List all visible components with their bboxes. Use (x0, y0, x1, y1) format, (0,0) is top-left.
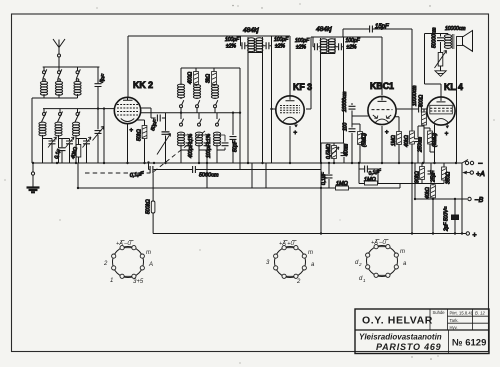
band switch row1 S1a (43, 67, 47, 79)
svg-text:Piirt. 15.8.41: Piirt. 15.8.41 (450, 311, 474, 316)
capacitor 100pF T2 right (335, 37, 344, 47)
capacitor 15pF (370, 25, 373, 33)
osc coil row1 b (193, 85, 200, 99)
svg-text:+A –U: +A –U (116, 241, 131, 247)
svg-text:B. 12: B. 12 (475, 311, 485, 316)
terminal +A (464, 171, 471, 174)
svg-text:40cm: 40cm (344, 144, 350, 156)
svg-text:90kΩ: 90kΩ (415, 171, 421, 183)
svg-text:350Ω: 350Ω (446, 172, 452, 184)
wire KF3 anode to IFT2 (306, 37, 382, 109)
svg-text:2: 2 (358, 262, 362, 267)
capacitor 50pF padder right (232, 113, 234, 163)
svg-text:+A –U: +A –U (371, 240, 386, 246)
resistor 600ohm KL4 (424, 109, 427, 163)
output transformer (444, 34, 456, 50)
trimmer capacitor C2 (59, 137, 75, 163)
svg-text:15pF: 15pF (375, 24, 389, 30)
wire 500k resistor drop (152, 170, 154, 234)
svg-text:PARISTO 469: PARISTO 469 (376, 342, 442, 352)
wire speaker return (456, 46, 458, 164)
tube socket diagram 3 (KL4) (355, 239, 407, 283)
capacitor 10000cm KBC1 left (352, 103, 368, 122)
resistor 40k bias lower (431, 185, 436, 198)
wire IFT1 drops (248, 46, 272, 163)
title block outer box (355, 309, 489, 354)
capacitor 10000cm KL4 grid (419, 105, 422, 113)
svg-text:A: A (148, 262, 153, 268)
oscillator top bus (181, 68, 240, 170)
svg-text:m: m (400, 249, 405, 255)
tube socket diagram 2 (KF3) (266, 240, 315, 285)
svg-text:±2%: ±2% (296, 45, 307, 51)
osc coil row1 a (177, 68, 184, 99)
resistor 90k bias (420, 167, 425, 180)
svg-text:10000cm: 10000cm (342, 91, 348, 112)
svg-text:+: + (294, 131, 298, 137)
svg-text:+: + (385, 130, 389, 136)
band switch row1 S1b (58, 67, 62, 79)
svg-text:KF 3: KF 3 (293, 82, 312, 92)
capacitor 100cm KBC1 left (351, 122, 353, 136)
wire KF3 cathode (289, 126, 291, 163)
capacitor 100pF T2 left (313, 37, 321, 47)
resistor 5M KBC1 (352, 124, 360, 163)
capacitor 0.1uF AF line (150, 166, 153, 174)
resistor 40k left (78, 139, 80, 164)
svg-text:+: + (473, 232, 477, 239)
svg-text:40kΩ: 40kΩ (404, 135, 410, 147)
variable capacitor main tuning (93, 127, 105, 164)
resistor 500k (151, 201, 155, 213)
svg-text:2: 2 (103, 261, 108, 267)
svg-text:500kΩ: 500kΩ (146, 199, 152, 214)
tube KK2 (114, 97, 140, 123)
svg-text:(6MΩ): (6MΩ) (432, 133, 438, 147)
svg-text:100pF: 100pF (274, 37, 289, 43)
wire diode RC loop (359, 163, 422, 184)
resistor 0.5M pot KF3 (321, 143, 334, 163)
trimmer capacitor C1 (43, 137, 57, 163)
trimmer capacitor C3 (76, 137, 91, 163)
dashed gang line (85, 131, 205, 173)
resistor 400ohm (195, 68, 197, 86)
band switch row2 S2b (58, 109, 63, 122)
svg-text:±2%: ±2% (347, 45, 358, 51)
osc coil row2 b + padder (195, 132, 211, 188)
svg-text:KL 4: KL 4 (444, 82, 463, 92)
wire KK2 right stubs (141, 108, 166, 118)
capacitor 5pF antenna (97, 67, 99, 129)
osc switch row2 (180, 113, 220, 126)
antenna coil L1 (40, 79, 47, 98)
resistor 350ohm bias (442, 167, 447, 180)
svg-text:100: 100 (343, 122, 349, 131)
capacitor 100pF T1 right (263, 36, 272, 46)
wire KK2 left stubs (103, 109, 105, 163)
band switch row1 S1c (76, 67, 80, 79)
svg-text:KK 2: KK 2 (133, 80, 153, 90)
ground tone (435, 71, 446, 77)
wire IFT2 drops (321, 47, 344, 163)
svg-text:№ 6129: № 6129 (452, 338, 486, 349)
capacitor 250cm (418, 126, 424, 163)
svg-text:m: m (146, 250, 151, 256)
capacitor 50pF osc grid (157, 114, 160, 122)
svg-text:2: 2 (296, 279, 301, 285)
wire KK2 anode to IFT1 (128, 36, 290, 98)
svg-text:+: + (130, 128, 134, 134)
loudspeaker (455, 31, 473, 52)
grid coil L6 (72, 122, 79, 163)
svg-text:50000cm: 50000cm (432, 27, 438, 48)
svg-text:(5MΩ): (5MΩ) (362, 133, 368, 147)
capacitor 5000cm (193, 166, 196, 174)
wire row1 coil bus (32, 98, 78, 163)
capacitor 25uF bias (427, 171, 435, 174)
IF transformer T1 484kj (248, 37, 263, 53)
svg-text:100pF: 100pF (295, 38, 310, 44)
wire KBC1 anode to KL4 grid (396, 108, 427, 110)
wire KBC1 cathode (381, 126, 383, 163)
tube socket diagram 1 (KK2) (103, 240, 153, 285)
resistor 6M (424, 128, 435, 152)
variable capacitor osc tuning (165, 113, 167, 163)
wire second bus y170 (149, 163, 322, 170)
svg-text:25μF: 25μF (431, 170, 437, 183)
grid coil L4 (39, 122, 46, 163)
svg-text:0,5MΩ: 0,5MΩ (326, 144, 332, 159)
svg-text:1: 1 (110, 278, 113, 284)
osc coil row1 c (211, 85, 218, 99)
svg-text:484kj: 484kj (316, 26, 332, 33)
svg-text:Yleisradiovastaanotin: Yleisradiovastaanotin (359, 333, 442, 342)
svg-text:1MΩ: 1MΩ (391, 135, 397, 146)
svg-text:250cm: 250cm (418, 137, 424, 153)
resistor 50k KK2 cathode (142, 126, 147, 139)
svg-text:0,1μF: 0,1μF (321, 171, 327, 185)
resistor 1M KBC1 (395, 117, 399, 163)
svg-text:10000cm: 10000cm (412, 85, 418, 106)
svg-text:40kΩ: 40kΩ (425, 187, 431, 199)
variable resistor tone (438, 53, 443, 67)
svg-text:+: + (445, 132, 449, 138)
oscillator mid bus (141, 112, 240, 114)
band switch row2 S2c (75, 109, 80, 122)
osc coil row2 c + padder (213, 132, 229, 163)
svg-text:3+5: 3+5 (133, 279, 144, 285)
terminal -B (468, 197, 471, 200)
svg-text:484kj: 484kj (243, 27, 259, 34)
band switch row2 S2a (42, 109, 47, 122)
svg-text:400pF±1%: 400pF±1% (188, 133, 194, 158)
osc switch row1 (180, 100, 218, 113)
svg-text:m: m (308, 250, 313, 256)
svg-text:−: − (478, 159, 483, 168)
svg-text:KBC1: KBC1 (370, 81, 394, 91)
ground left (32, 163, 34, 187)
svg-text:100pF: 100pF (346, 38, 361, 44)
svg-text:Suhde: Suhde (433, 310, 446, 315)
tube KBC1 (368, 96, 396, 124)
wire -B line (415, 163, 467, 199)
svg-text:−B: −B (475, 197, 484, 204)
capacitor 40cm KF3 (343, 143, 345, 163)
svg-text:2μF 500V=: 2μF 500V= (444, 206, 450, 232)
antenna coil L2 (55, 79, 62, 98)
svg-text:+A: +A (476, 171, 485, 178)
wire KL4 anode loop (425, 34, 449, 97)
svg-text:±2%: ±2% (275, 44, 286, 50)
wire antenna bus (43, 57, 100, 67)
svg-text:1MΩ: 1MΩ (336, 181, 348, 187)
wire KL4 cathode (434, 125, 436, 164)
wire KK2 cathode (128, 120, 145, 163)
capacitor 0.1uF det out (325, 175, 333, 178)
capacitor 2uF electrolytic (452, 215, 459, 220)
svg-text:O.Y. HELVAR: O.Y. HELVAR (362, 315, 433, 327)
tube KL4 (427, 97, 455, 128)
tube KF3 (276, 96, 304, 127)
svg-text:3kΩ: 3kΩ (206, 74, 212, 83)
svg-text:50kΩ: 50kΩ (137, 129, 143, 141)
capacitor 0.1uF AF coupling (365, 165, 368, 173)
svg-text:10000cm: 10000cm (445, 26, 466, 32)
switch minus terminal (462, 160, 468, 164)
grid coil L5 (55, 122, 62, 163)
svg-text:1MΩ: 1MΩ (364, 177, 376, 183)
terminal battery plus (462, 233, 466, 235)
svg-text:100pF: 100pF (225, 37, 240, 43)
wire 2uF drop (454, 199, 456, 234)
capacitor 50000cm tone (440, 34, 442, 53)
svg-text:Tark.: Tark. (450, 318, 459, 323)
svg-text:400Ω: 400Ω (188, 72, 194, 84)
svg-text:100pF±1%: 100pF±1% (206, 133, 212, 158)
svg-text:50pF: 50pF (233, 140, 239, 152)
osc coil row2 a + padder (177, 132, 193, 163)
svg-text:600Ω: 600Ω (419, 95, 425, 107)
wire AF bus y188 (78, 163, 400, 188)
wire 15pF top line (343, 29, 412, 234)
svg-text:5000cm: 5000cm (199, 173, 219, 179)
wire mid verticals (252, 163, 321, 234)
IF transformer T2 484kj (320, 38, 335, 54)
wire right bias drops (400, 163, 444, 234)
resistor 40k KL4 (410, 131, 415, 144)
antenna coil L3 (74, 79, 81, 98)
svg-text:±2%: ±2% (226, 44, 237, 50)
resistor 1M volume (336, 186, 349, 190)
wire main ground bus (32, 162, 462, 164)
wire grid bus row2 (43, 108, 114, 110)
wire right rail (461, 163, 463, 234)
capacitor 100pF T1 left (241, 36, 249, 46)
resistor 1M AF grid (365, 181, 378, 185)
capacitor 0.1uF left (61, 139, 63, 164)
svg-text:+A +U: +A +U (279, 241, 294, 247)
wire bottom battery bus (153, 233, 462, 235)
antenna (53, 39, 65, 54)
resistor 3k (213, 68, 215, 86)
svg-text:Hyv.: Hyv. (450, 325, 458, 330)
